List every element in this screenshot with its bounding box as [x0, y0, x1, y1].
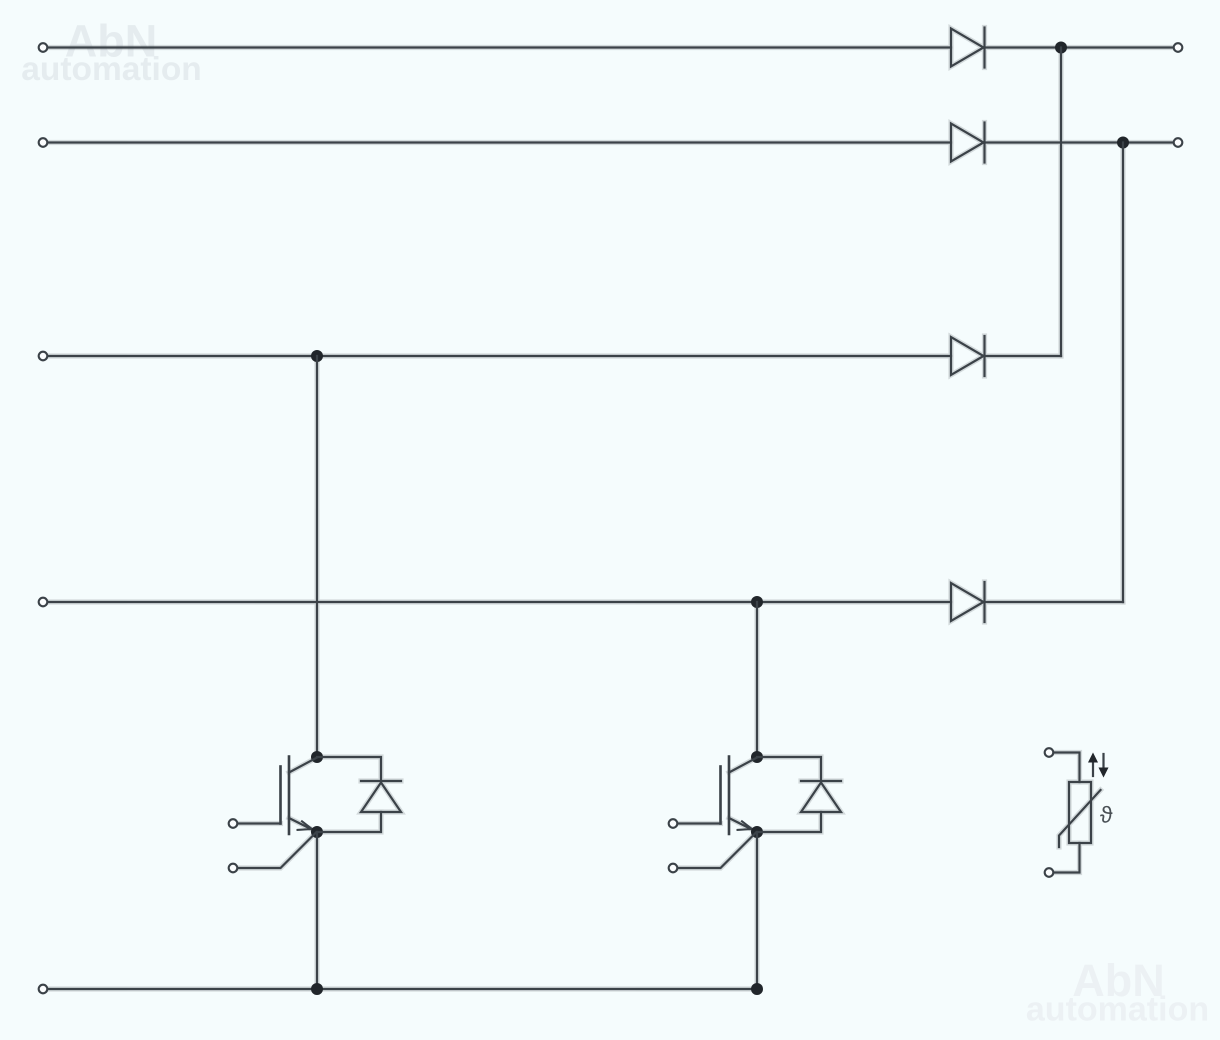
watermark top-left AbN automation — [21, 16, 202, 89]
watermark bottom-right AbN automation — [1026, 955, 1209, 1029]
svg-text:automation: automation — [21, 51, 202, 88]
svg-text:automation: automation — [1026, 991, 1209, 1029]
